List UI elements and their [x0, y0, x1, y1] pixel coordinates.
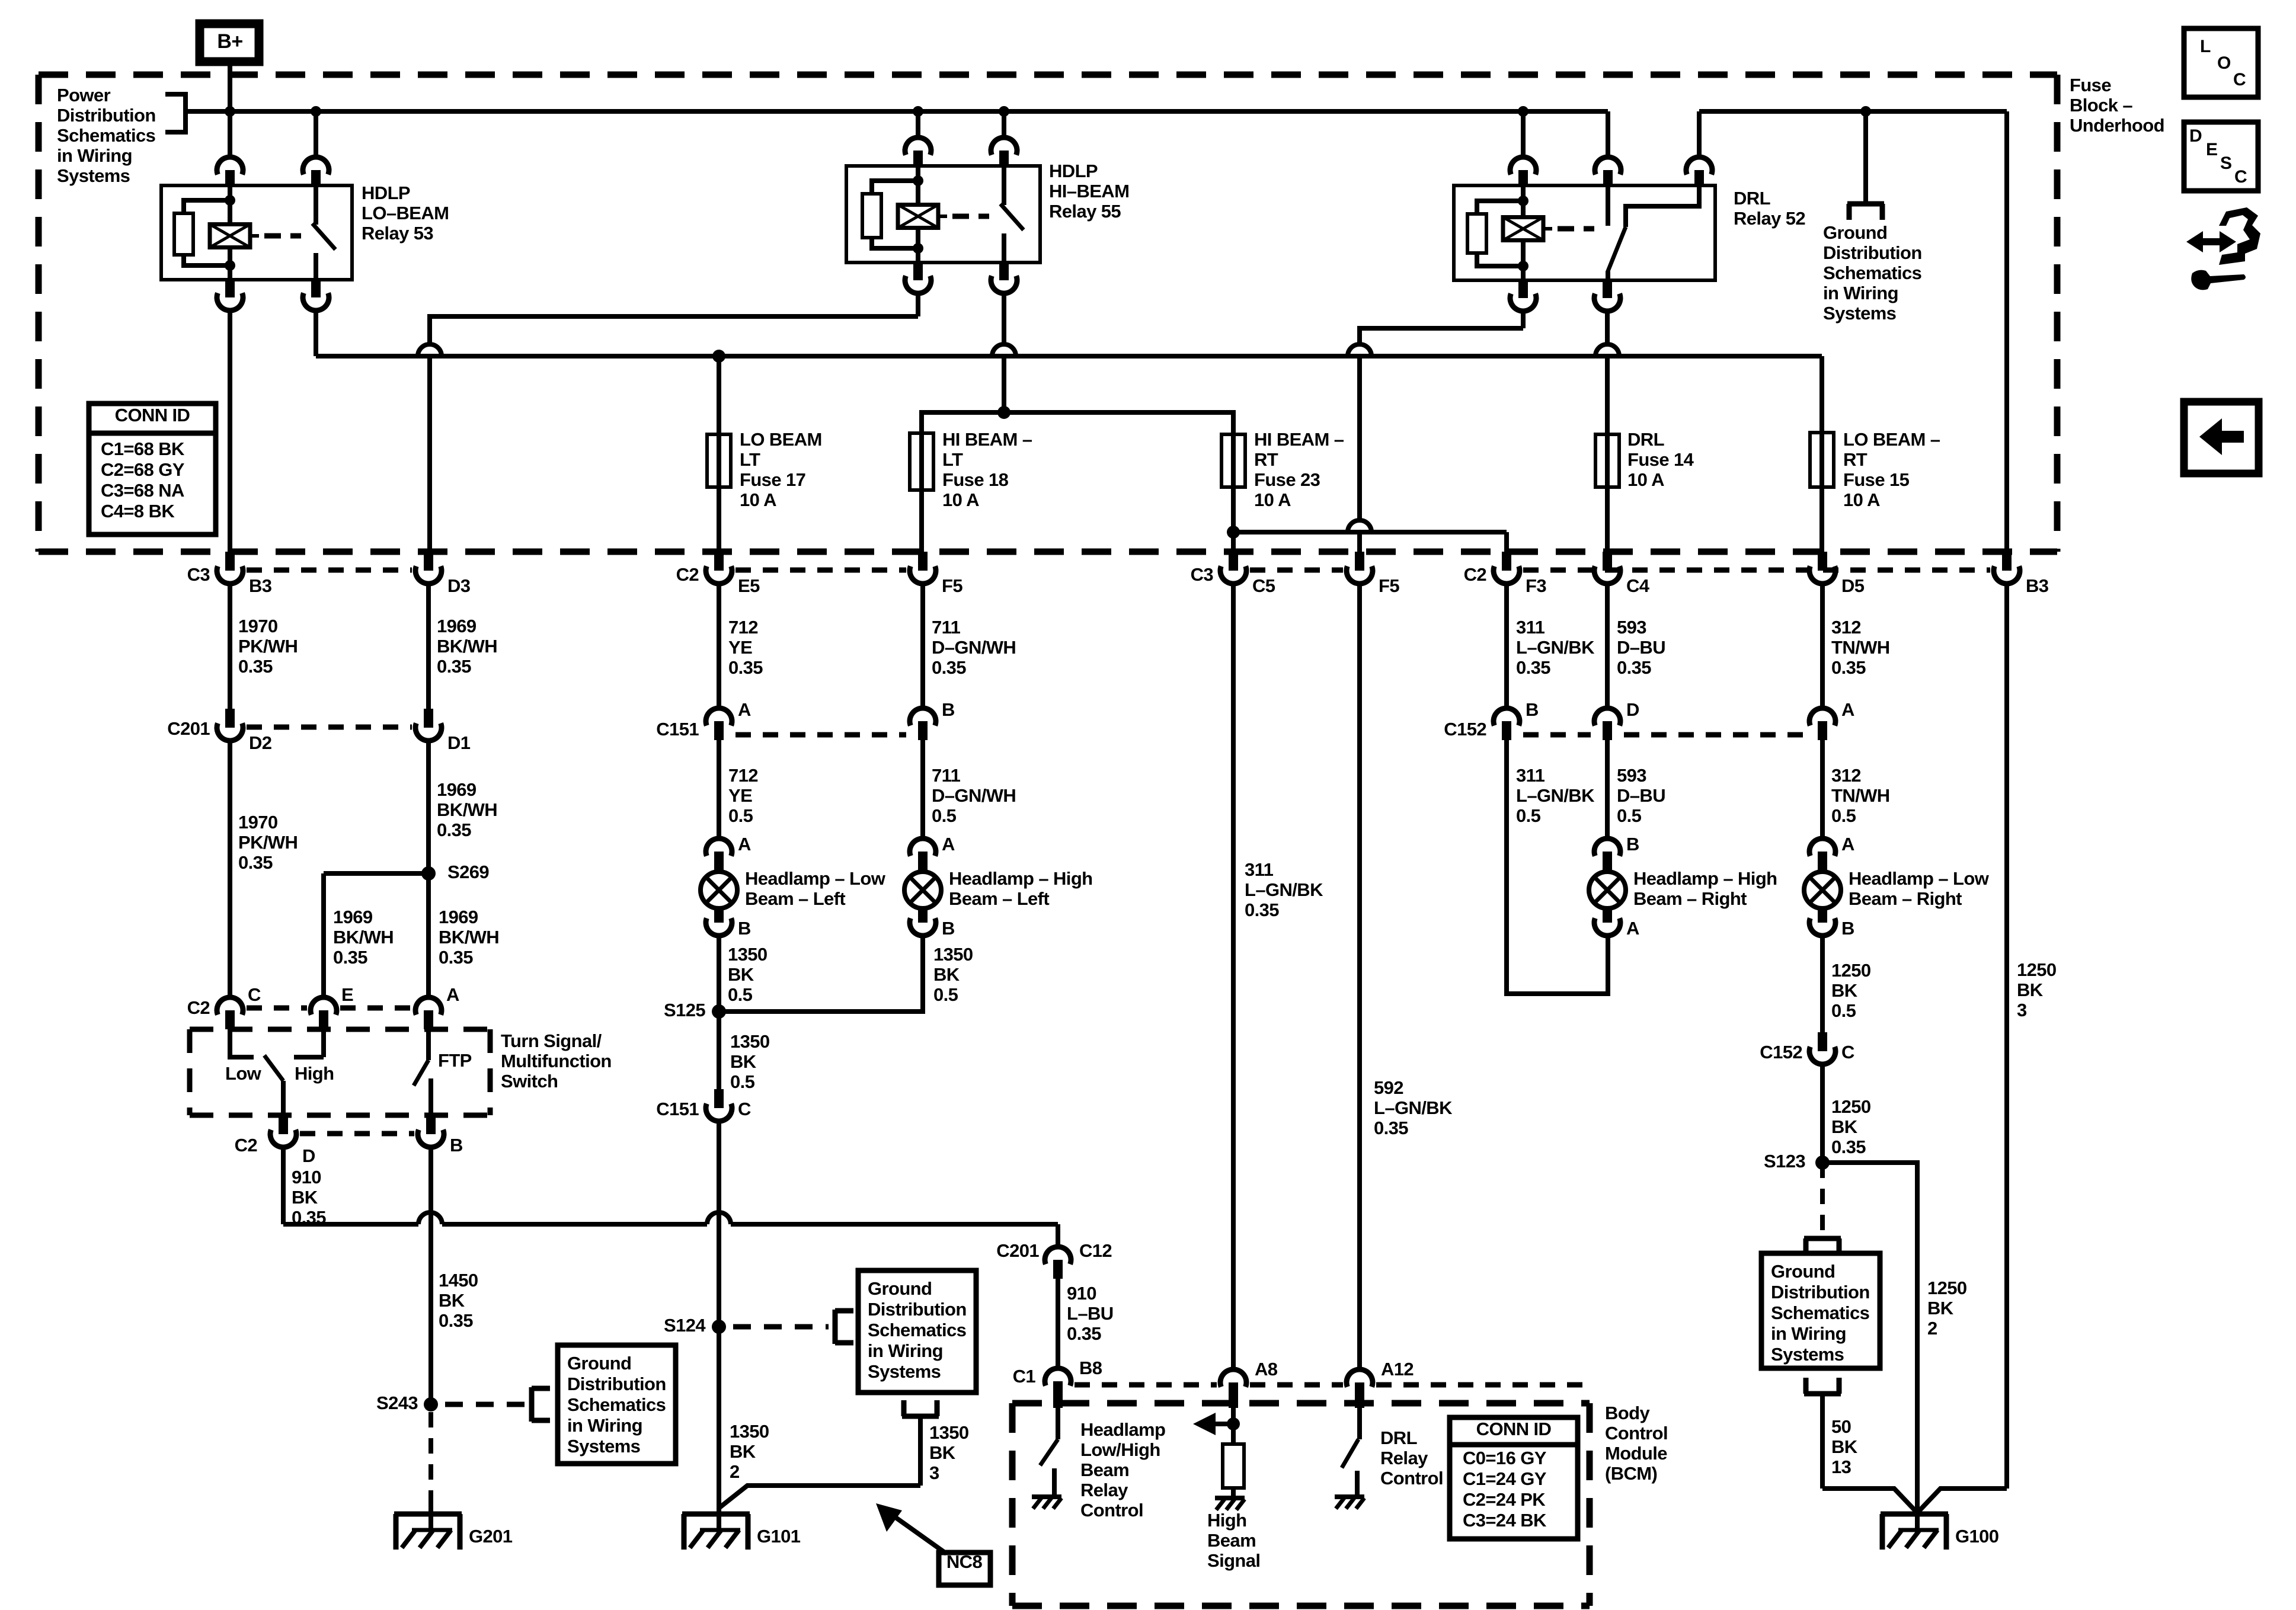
svg-text:D3: D3	[447, 575, 471, 596]
svg-text:B: B	[942, 918, 955, 939]
svg-text:HI BEAM –: HI BEAM –	[1254, 429, 1344, 450]
svg-text:Fuse: Fuse	[2070, 75, 2111, 95]
svg-text:B: B	[1626, 834, 1639, 854]
svg-text:O: O	[2217, 53, 2231, 73]
svg-text:312: 312	[1831, 617, 1861, 638]
svg-text:PK/WH: PK/WH	[238, 832, 298, 853]
svg-text:B+: B+	[217, 30, 242, 53]
svg-text:E: E	[341, 984, 353, 1005]
svg-text:Switch: Switch	[501, 1071, 558, 1092]
svg-text:CONN ID: CONN ID	[115, 405, 190, 425]
svg-text:0.5: 0.5	[932, 805, 957, 826]
svg-text:Distribution: Distribution	[1771, 1282, 1870, 1302]
svg-text:0.35: 0.35	[437, 820, 471, 840]
svg-text:Systems: Systems	[1823, 303, 1896, 324]
svg-text:LT: LT	[740, 449, 760, 470]
svg-text:10 A: 10 A	[1254, 489, 1291, 510]
svg-text:BK: BK	[2017, 980, 2044, 1000]
svg-text:Power: Power	[57, 85, 111, 105]
svg-text:Systems: Systems	[57, 165, 130, 186]
svg-text:HI BEAM –: HI BEAM –	[942, 429, 1032, 450]
svg-text:YE: YE	[728, 637, 752, 658]
svg-text:L: L	[2200, 37, 2211, 56]
svg-text:C151: C151	[656, 1099, 699, 1119]
svg-text:C2: C2	[676, 564, 699, 585]
svg-text:Beam – Right: Beam – Right	[1633, 888, 1747, 909]
svg-text:F5: F5	[942, 575, 962, 596]
svg-text:3: 3	[2017, 1000, 2027, 1020]
svg-text:311: 311	[1516, 617, 1545, 638]
svg-text:0.35: 0.35	[1831, 1137, 1866, 1157]
svg-text:0.5: 0.5	[933, 984, 958, 1005]
svg-text:S: S	[2220, 153, 2231, 173]
svg-text:B8: B8	[1079, 1358, 1102, 1378]
svg-text:Signal: Signal	[1207, 1550, 1260, 1571]
svg-text:Systems: Systems	[868, 1361, 941, 1382]
svg-text:in Wiring: in Wiring	[1771, 1323, 1846, 1344]
svg-text:G101: G101	[757, 1526, 801, 1547]
svg-text:1250: 1250	[1831, 960, 1871, 981]
svg-text:Headlamp: Headlamp	[1080, 1419, 1165, 1440]
svg-text:DRL: DRL	[1627, 429, 1664, 450]
svg-text:NC8: NC8	[946, 1551, 983, 1572]
svg-text:LO BEAM: LO BEAM	[740, 429, 822, 450]
svg-text:LO BEAM –: LO BEAM –	[1843, 429, 1940, 450]
svg-text:Headlamp – High: Headlamp – High	[949, 868, 1093, 889]
svg-text:DRL: DRL	[1380, 1427, 1417, 1448]
svg-text:Ground: Ground	[567, 1353, 631, 1374]
svg-text:C3=68 NA: C3=68 NA	[101, 480, 184, 501]
svg-text:BK: BK	[929, 1442, 956, 1463]
svg-text:Relay 52: Relay 52	[1734, 208, 1805, 229]
svg-text:311: 311	[1516, 765, 1545, 786]
svg-text:Module: Module	[1605, 1443, 1667, 1464]
svg-text:C3=24 BK: C3=24 BK	[1463, 1510, 1547, 1531]
svg-text:712: 712	[728, 765, 758, 786]
svg-text:D: D	[1626, 699, 1639, 720]
svg-text:A: A	[738, 834, 751, 854]
svg-text:CONN ID: CONN ID	[1476, 1419, 1552, 1439]
svg-text:1250: 1250	[1831, 1096, 1871, 1117]
svg-text:S269: S269	[447, 862, 489, 882]
svg-text:S124: S124	[664, 1315, 706, 1336]
svg-text:1969: 1969	[439, 907, 478, 927]
svg-text:Fuse 18: Fuse 18	[942, 469, 1009, 490]
svg-text:0.35: 0.35	[932, 657, 966, 678]
svg-text:G100: G100	[1955, 1526, 1998, 1547]
svg-text:PK/WH: PK/WH	[238, 636, 298, 657]
svg-text:0.35: 0.35	[1516, 657, 1550, 678]
svg-text:A8: A8	[1255, 1359, 1278, 1379]
svg-text:592: 592	[1374, 1077, 1403, 1098]
svg-text:10 A: 10 A	[740, 489, 776, 510]
svg-text:B: B	[942, 699, 955, 720]
svg-text:A: A	[942, 834, 955, 854]
svg-text:Systems: Systems	[567, 1436, 640, 1457]
svg-text:0.35: 0.35	[1831, 657, 1866, 678]
svg-text:910: 910	[292, 1167, 321, 1188]
svg-text:D5: D5	[1841, 575, 1865, 596]
svg-text:10 A: 10 A	[942, 489, 979, 510]
svg-text:0.35: 0.35	[1374, 1118, 1408, 1138]
svg-text:D2: D2	[249, 732, 271, 753]
svg-text:in Wiring: in Wiring	[567, 1415, 642, 1436]
svg-text:311: 311	[1245, 859, 1274, 880]
svg-text:L–GN/BK: L–GN/BK	[1245, 879, 1323, 900]
svg-text:HDLP: HDLP	[1049, 161, 1098, 181]
svg-text:Schematics: Schematics	[567, 1394, 666, 1415]
svg-text:Fuse 23: Fuse 23	[1254, 469, 1320, 490]
svg-text:Control: Control	[1605, 1423, 1668, 1443]
svg-text:Ground: Ground	[868, 1278, 932, 1299]
svg-text:High: High	[295, 1063, 334, 1084]
svg-text:L–GN/BK: L–GN/BK	[1374, 1097, 1453, 1118]
svg-text:C2=24 PK: C2=24 PK	[1463, 1489, 1546, 1510]
svg-text:712: 712	[728, 617, 758, 638]
svg-text:A: A	[738, 699, 751, 720]
svg-text:BK: BK	[933, 964, 960, 985]
svg-text:Headlamp – Low: Headlamp – Low	[1849, 868, 1990, 889]
svg-text:Block –: Block –	[2070, 95, 2132, 116]
svg-text:Underhood: Underhood	[2070, 115, 2164, 136]
svg-text:BK: BK	[1927, 1298, 1954, 1318]
svg-text:2: 2	[730, 1461, 740, 1482]
svg-text:Fuse 14: Fuse 14	[1627, 449, 1694, 470]
svg-text:B3: B3	[249, 575, 272, 596]
svg-text:C3: C3	[1191, 564, 1214, 585]
svg-text:D–GN/WH: D–GN/WH	[932, 637, 1016, 658]
svg-text:L–GN/BK: L–GN/BK	[1516, 637, 1595, 658]
svg-text:BK: BK	[730, 1441, 756, 1462]
svg-text:L–GN/BK: L–GN/BK	[1516, 785, 1595, 806]
svg-text:0.35: 0.35	[333, 947, 367, 968]
svg-text:BK/WH: BK/WH	[439, 927, 499, 948]
svg-text:1350: 1350	[730, 1421, 769, 1442]
svg-text:FTP: FTP	[438, 1050, 472, 1071]
svg-text:YE: YE	[728, 785, 752, 806]
svg-text:0.35: 0.35	[439, 947, 473, 968]
svg-text:Headlamp – High: Headlamp – High	[1633, 868, 1777, 889]
svg-text:Multifunction: Multifunction	[501, 1051, 612, 1071]
svg-text:2: 2	[1927, 1318, 1937, 1339]
svg-text:C: C	[1841, 1042, 1854, 1062]
svg-text:Beam: Beam	[1080, 1459, 1129, 1480]
svg-text:B3: B3	[2026, 575, 2049, 596]
svg-text:1970: 1970	[238, 616, 278, 636]
svg-text:B: B	[1526, 699, 1539, 720]
svg-text:D–BU: D–BU	[1617, 785, 1665, 806]
svg-text:1970: 1970	[238, 812, 278, 833]
svg-text:BK: BK	[439, 1290, 465, 1311]
svg-text:C2: C2	[187, 997, 210, 1018]
svg-text:0.35: 0.35	[728, 657, 763, 678]
svg-text:C2: C2	[235, 1135, 257, 1156]
svg-text:Beam – Left: Beam – Left	[949, 888, 1049, 909]
svg-text:C201: C201	[167, 718, 210, 739]
svg-text:C151: C151	[656, 719, 699, 740]
svg-text:Fuse 15: Fuse 15	[1843, 469, 1910, 490]
svg-text:High: High	[1207, 1510, 1246, 1531]
svg-text:0.5: 0.5	[730, 1071, 755, 1092]
svg-text:Systems: Systems	[1771, 1344, 1844, 1365]
svg-text:Turn Signal/: Turn Signal/	[501, 1030, 602, 1051]
svg-text:BK/WH: BK/WH	[437, 799, 497, 820]
svg-text:C4=8 BK: C4=8 BK	[101, 501, 175, 521]
svg-text:Fuse 17: Fuse 17	[740, 469, 805, 490]
svg-text:Relay 55: Relay 55	[1049, 201, 1121, 222]
svg-text:Schematics: Schematics	[1771, 1302, 1869, 1323]
svg-text:(BCM): (BCM)	[1605, 1463, 1657, 1484]
svg-text:S243: S243	[376, 1393, 418, 1413]
svg-text:1250: 1250	[2017, 959, 2057, 980]
svg-text:1250: 1250	[1927, 1278, 1967, 1298]
svg-text:Ground: Ground	[1823, 222, 1887, 243]
svg-text:1450: 1450	[439, 1270, 478, 1291]
svg-text:D: D	[2189, 126, 2202, 146]
svg-text:C: C	[248, 984, 261, 1005]
svg-text:312: 312	[1831, 765, 1861, 786]
svg-text:Schematics: Schematics	[57, 125, 155, 146]
svg-text:C0=16 GY: C0=16 GY	[1463, 1448, 1547, 1468]
svg-text:TN/WH: TN/WH	[1831, 637, 1890, 658]
svg-text:Distribution: Distribution	[567, 1374, 666, 1394]
svg-text:C1=24 GY: C1=24 GY	[1463, 1468, 1547, 1489]
svg-text:1350: 1350	[730, 1031, 770, 1052]
svg-text:Low: Low	[225, 1063, 262, 1084]
svg-text:711: 711	[932, 617, 961, 638]
svg-text:C12: C12	[1079, 1240, 1112, 1261]
svg-text:HI–BEAM: HI–BEAM	[1049, 181, 1129, 201]
svg-text:HDLP: HDLP	[362, 183, 410, 203]
svg-text:C201: C201	[996, 1240, 1039, 1261]
svg-text:BK: BK	[728, 964, 754, 985]
svg-text:0.35: 0.35	[292, 1207, 326, 1228]
svg-text:0.35: 0.35	[437, 656, 471, 677]
svg-text:10 A: 10 A	[1843, 489, 1880, 510]
svg-text:1350: 1350	[929, 1422, 969, 1443]
svg-text:Relay 53: Relay 53	[362, 223, 433, 244]
svg-text:BK: BK	[730, 1051, 757, 1072]
svg-text:TN/WH: TN/WH	[1831, 785, 1890, 806]
svg-text:BK: BK	[1831, 1116, 1858, 1137]
svg-text:C1: C1	[1013, 1366, 1036, 1387]
svg-text:0.35: 0.35	[238, 852, 273, 873]
svg-text:1350: 1350	[728, 944, 768, 965]
svg-text:B: B	[450, 1135, 463, 1156]
svg-text:A: A	[1841, 699, 1854, 720]
svg-text:C2: C2	[1464, 564, 1486, 585]
svg-text:0.5: 0.5	[1831, 805, 1856, 826]
svg-text:0.35: 0.35	[1245, 900, 1279, 920]
svg-text:Beam – Left: Beam – Left	[745, 888, 845, 909]
svg-text:1969: 1969	[333, 907, 373, 927]
svg-text:Ground: Ground	[1771, 1261, 1835, 1282]
svg-text:in Wiring: in Wiring	[868, 1340, 943, 1361]
svg-text:0.35: 0.35	[1067, 1323, 1101, 1344]
svg-text:C2=68 GY: C2=68 GY	[101, 459, 185, 480]
svg-text:1969: 1969	[437, 779, 477, 800]
svg-text:E: E	[2206, 140, 2217, 159]
svg-text:C3: C3	[187, 564, 210, 585]
svg-text:C152: C152	[1760, 1042, 1802, 1062]
svg-text:DRL: DRL	[1734, 188, 1770, 209]
svg-text:RT: RT	[1254, 449, 1278, 470]
svg-text:C5: C5	[1252, 575, 1275, 596]
svg-text:Relay: Relay	[1380, 1448, 1428, 1468]
svg-text:593: 593	[1617, 617, 1646, 638]
svg-text:L–BU: L–BU	[1067, 1303, 1114, 1324]
svg-text:A: A	[1841, 834, 1854, 854]
svg-text:Control: Control	[1380, 1468, 1443, 1489]
svg-text:Beam: Beam	[1207, 1530, 1256, 1551]
svg-text:Headlamp – Low: Headlamp – Low	[745, 868, 886, 889]
svg-text:Schematics: Schematics	[1823, 263, 1921, 283]
svg-text:0.35: 0.35	[238, 656, 273, 677]
svg-text:E5: E5	[738, 575, 760, 596]
svg-text:Body: Body	[1605, 1403, 1650, 1423]
svg-text:1350: 1350	[933, 944, 973, 965]
svg-text:G201: G201	[469, 1526, 513, 1547]
svg-text:910: 910	[1067, 1283, 1096, 1304]
svg-text:C: C	[738, 1099, 751, 1119]
svg-text:0.5: 0.5	[1516, 805, 1541, 826]
svg-text:C4: C4	[1626, 575, 1650, 596]
svg-text:B: B	[738, 918, 751, 939]
svg-text:711: 711	[932, 765, 961, 786]
svg-text:RT: RT	[1843, 449, 1868, 470]
svg-text:C: C	[2233, 70, 2246, 89]
svg-text:A: A	[446, 984, 459, 1005]
svg-text:Beam – Right: Beam – Right	[1849, 888, 1962, 909]
svg-text:B: B	[1841, 918, 1854, 939]
svg-text:D–GN/WH: D–GN/WH	[932, 785, 1016, 806]
svg-text:S125: S125	[664, 1000, 705, 1020]
svg-text:Distribution: Distribution	[1823, 242, 1922, 263]
svg-text:0.5: 0.5	[728, 984, 753, 1005]
svg-text:D–BU: D–BU	[1617, 637, 1665, 658]
svg-text:C1=68 BK: C1=68 BK	[101, 438, 185, 459]
svg-text:593: 593	[1617, 765, 1646, 786]
svg-text:Control: Control	[1080, 1500, 1143, 1521]
svg-text:in Wiring: in Wiring	[57, 145, 132, 166]
svg-text:Schematics: Schematics	[868, 1320, 966, 1340]
svg-text:0.35: 0.35	[439, 1310, 473, 1331]
svg-text:1969: 1969	[437, 616, 477, 636]
svg-text:Distribution: Distribution	[868, 1299, 967, 1320]
svg-text:D1: D1	[447, 732, 471, 753]
svg-text:F3: F3	[1526, 575, 1546, 596]
svg-text:C152: C152	[1444, 719, 1486, 740]
svg-text:LO–BEAM: LO–BEAM	[362, 203, 449, 223]
svg-text:0.5: 0.5	[1617, 805, 1642, 826]
svg-text:Distribution: Distribution	[57, 105, 156, 126]
svg-text:0.5: 0.5	[1831, 1000, 1856, 1021]
svg-text:A12: A12	[1381, 1359, 1414, 1379]
svg-text:50: 50	[1831, 1416, 1851, 1437]
svg-text:13: 13	[1831, 1457, 1851, 1477]
svg-text:C: C	[2234, 167, 2247, 187]
svg-text:BK: BK	[1831, 980, 1858, 1001]
svg-text:10 A: 10 A	[1627, 469, 1664, 490]
svg-text:BK/WH: BK/WH	[333, 927, 394, 948]
svg-text:0.35: 0.35	[1617, 657, 1651, 678]
svg-text:LT: LT	[942, 449, 963, 470]
svg-text:Relay: Relay	[1080, 1480, 1128, 1500]
svg-text:BK/WH: BK/WH	[437, 636, 497, 657]
svg-text:in Wiring: in Wiring	[1823, 283, 1898, 303]
svg-text:A: A	[1626, 918, 1639, 939]
svg-text:F5: F5	[1379, 575, 1399, 596]
svg-text:D: D	[302, 1145, 315, 1166]
svg-text:3: 3	[929, 1462, 939, 1483]
svg-text:BK: BK	[292, 1187, 318, 1208]
svg-text:Low/High: Low/High	[1080, 1439, 1160, 1460]
svg-text:0.5: 0.5	[728, 805, 753, 826]
svg-text:S123: S123	[1764, 1151, 1805, 1172]
svg-text:BK: BK	[1831, 1436, 1858, 1457]
